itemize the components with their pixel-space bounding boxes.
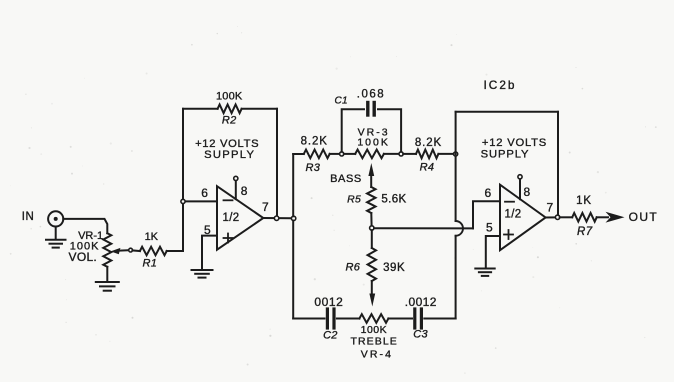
svg-text:8: 8 [241, 184, 248, 198]
svg-text:TREBLE: TREBLE [350, 336, 397, 348]
svg-text:R3: R3 [305, 162, 320, 174]
svg-text:R4: R4 [420, 161, 435, 173]
svg-text:R6: R6 [345, 262, 360, 274]
svg-text:8.2K: 8.2K [415, 137, 442, 149]
svg-text:1K: 1K [576, 195, 592, 207]
svg-text:8: 8 [524, 185, 531, 199]
svg-text:OUT: OUT [629, 210, 659, 224]
svg-text:SUPPLY: SUPPLY [204, 149, 255, 161]
svg-text:100K: 100K [357, 137, 390, 149]
svg-text:7: 7 [262, 200, 269, 214]
svg-text:5: 5 [486, 220, 493, 234]
svg-text:R7: R7 [577, 226, 593, 238]
svg-text:R2: R2 [222, 115, 237, 127]
svg-text:BASS: BASS [330, 173, 362, 185]
svg-text:1K: 1K [145, 231, 159, 243]
svg-text:IN: IN [22, 211, 35, 223]
svg-text:7: 7 [547, 201, 554, 215]
svg-text:1/2: 1/2 [223, 212, 240, 224]
svg-text:IC2b: IC2b [484, 78, 517, 92]
svg-text:R5: R5 [347, 193, 361, 205]
svg-text:C3: C3 [413, 329, 428, 341]
svg-text:SUPPLY: SUPPLY [481, 149, 530, 161]
svg-text:VR-4: VR-4 [361, 348, 393, 360]
svg-text:100K: 100K [216, 90, 243, 102]
svg-text:39K: 39K [383, 262, 405, 274]
svg-text:C1: C1 [335, 95, 348, 106]
svg-text:+12 VOLTS: +12 VOLTS [482, 137, 547, 149]
svg-text:5: 5 [204, 223, 211, 237]
svg-text:1/2: 1/2 [505, 209, 522, 221]
svg-text:8.2K: 8.2K [301, 136, 328, 148]
svg-text:R1: R1 [142, 257, 157, 269]
svg-text:VOL.: VOL. [69, 250, 98, 264]
svg-text:6: 6 [201, 186, 208, 200]
svg-text:6: 6 [485, 186, 492, 200]
svg-text:.0012: .0012 [405, 295, 437, 309]
svg-text:0012: 0012 [314, 295, 343, 309]
svg-text:C2: C2 [323, 330, 338, 342]
svg-text:100K: 100K [361, 324, 388, 336]
svg-text:5.6K: 5.6K [381, 194, 406, 206]
svg-text:.068: .068 [357, 89, 385, 101]
